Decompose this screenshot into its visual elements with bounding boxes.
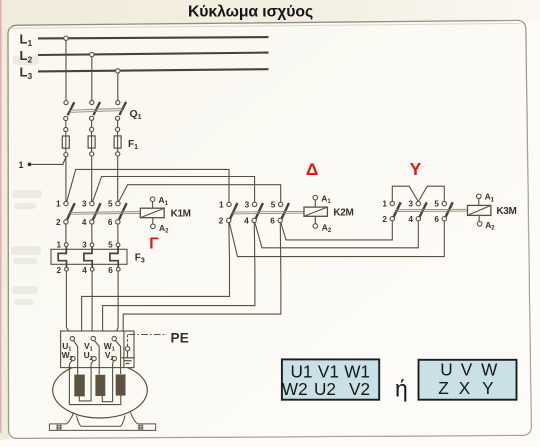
switch Q1 pole 2	[90, 100, 101, 120]
pin labels 5 6 of K1M	[108, 200, 113, 227]
svg-text:V: V	[461, 359, 473, 379]
switch Q1 pole 1	[64, 101, 75, 121]
node 1 dot	[28, 163, 32, 167]
wire F3-6 to motor W1	[114, 271, 118, 336]
svg-text:6: 6	[108, 266, 113, 275]
svg-text:1: 1	[219, 201, 224, 210]
wire K2M-4 to K3M-4	[255, 221, 418, 248]
pin label A1 of K2M	[321, 194, 331, 206]
node tap L1	[64, 36, 68, 40]
contactor K2M pole 1	[227, 202, 238, 222]
label ή (or)	[395, 375, 408, 401]
terminal U2	[79, 356, 96, 401]
terminal designation box left	[282, 359, 379, 399]
motor winding 2	[95, 375, 105, 396]
title Κύκλωμα ισχύος	[188, 3, 313, 20]
fuse F1 pole 3	[114, 127, 121, 156]
PE terminal	[125, 335, 129, 358]
pin labels 1 2 of K1M	[56, 200, 61, 227]
svg-text:X: X	[459, 378, 471, 398]
ground symbol	[122, 358, 134, 364]
motor M1 body ellipse	[53, 362, 148, 418]
pin labels 5 6 of K3M	[434, 200, 439, 224]
label U1	[62, 341, 71, 353]
svg-text:K1M: K1M	[171, 209, 191, 220]
pin label A2 of K2M	[322, 222, 332, 234]
pin labels 1 2 of F3	[56, 241, 61, 275]
contactor K2M pole 3	[278, 202, 289, 222]
coil K1M	[140, 197, 164, 229]
svg-text:1: 1	[19, 160, 24, 170]
overload F3 element 2	[84, 243, 94, 271]
wire K2M-6 down to motor V2	[115, 223, 281, 359]
svg-text:6: 6	[434, 215, 439, 224]
label L3	[20, 65, 33, 82]
label K3M	[496, 206, 516, 217]
svg-text:1: 1	[56, 241, 61, 250]
svg-text:4: 4	[82, 266, 87, 275]
pin labels 3 4 of K2M	[244, 201, 249, 226]
wire F3-2 to motor U1	[66, 271, 72, 336]
K2M mechanical link	[233, 211, 305, 214]
svg-text:Κύκλωμα ισχύος: Κύκλωμα ισχύος	[188, 3, 313, 20]
svg-text:5: 5	[434, 200, 439, 209]
svg-text:K3M: K3M	[496, 206, 516, 217]
switch Q1 pole 3	[116, 100, 127, 120]
wire F1 to K1M pole3	[117, 156, 119, 201]
wire K1M-2 to F3-1	[65, 224, 67, 243]
wire K1M-4 to F3-3	[91, 224, 93, 243]
svg-text:2: 2	[56, 218, 61, 227]
contactor K2M pole 2	[252, 202, 263, 222]
red letter Γ	[149, 236, 159, 253]
contactor K3M pole 3	[442, 201, 453, 220]
svg-text:3: 3	[245, 201, 250, 210]
label V1	[84, 341, 93, 353]
svg-text:ή: ή	[395, 375, 408, 401]
labels U V W row	[440, 359, 498, 379]
label L2	[20, 48, 33, 64]
label Q1	[130, 108, 142, 121]
terminal W1	[112, 336, 121, 374]
node tap L3	[116, 69, 120, 73]
pin labels 3 4 of F3	[82, 241, 87, 275]
svg-text:U: U	[440, 359, 452, 379]
svg-text:4: 4	[408, 215, 413, 224]
wire F1 to K1M pole1	[65, 157, 67, 202]
terminal U1	[70, 336, 77, 374]
red letter Y	[410, 159, 422, 179]
label node 1	[19, 160, 24, 170]
Q1 mechanical link	[70, 109, 123, 113]
terminal W2	[69, 356, 120, 404]
K1M mechanical link	[70, 212, 140, 215]
coil K3M	[468, 194, 491, 226]
label W1	[104, 341, 115, 353]
motor base with feet	[49, 412, 155, 430]
wire branch K1M-3 to K2M-3 rail	[92, 177, 254, 203]
node tap L2	[90, 52, 94, 56]
svg-text:V2: V2	[349, 379, 370, 399]
contactor K3M pole 1	[390, 201, 401, 220]
svg-text:6: 6	[108, 218, 113, 227]
wire K2M-2 down to motor W2	[74, 223, 230, 358]
pin label A2 of K3M	[485, 220, 495, 232]
terminal V1	[91, 336, 99, 374]
svg-text:Y: Y	[482, 378, 494, 398]
svg-text:4: 4	[82, 218, 87, 227]
contactor K1M pole 2	[90, 201, 101, 224]
pin label A2 of K1M	[159, 223, 169, 235]
wire L1	[38, 37, 269, 38]
svg-text:K2M: K2M	[333, 208, 353, 219]
label K2M	[333, 208, 353, 219]
red letter Δ	[306, 160, 318, 179]
label U2	[84, 350, 93, 362]
contactor K3M pole 2	[416, 201, 427, 220]
label K1M	[171, 209, 191, 220]
svg-text:3: 3	[82, 200, 87, 209]
coil K2M	[304, 195, 327, 228]
svg-text:Γ: Γ	[149, 236, 159, 253]
label F3	[135, 252, 145, 264]
terminal V2	[102, 356, 116, 401]
wire branch K1M-1 to K2M-1 rail	[67, 169, 229, 202]
svg-text:2: 2	[219, 217, 224, 226]
svg-text:PE: PE	[171, 330, 190, 345]
pin labels 5 6 of K2M	[270, 201, 276, 226]
svg-text:5: 5	[271, 201, 276, 210]
motor winding 3	[116, 374, 126, 395]
K3M mechanical link	[396, 209, 468, 211]
wire K2M-4 down to motor U2	[95, 223, 255, 358]
svg-text:2: 2	[382, 215, 387, 224]
terminal designation box right	[419, 360, 517, 400]
wire L2	[38, 53, 269, 55]
PE dash-dot wire	[129, 334, 168, 336]
svg-text:3: 3	[408, 200, 413, 209]
wire Q1 to F1 pole3	[117, 120, 119, 127]
fuse F1 pole 2	[88, 127, 95, 156]
wire L1 tap to Q1	[65, 41, 67, 101]
labels W2 U2 V2 row	[282, 379, 370, 399]
svg-text:W2: W2	[282, 379, 308, 399]
motor winding 1	[74, 375, 85, 397]
overload F3 element 1	[58, 243, 68, 271]
svg-text:2: 2	[57, 266, 62, 275]
pin labels 5 6 of F3	[108, 241, 113, 275]
wire Q1 to F1 pole1	[65, 121, 67, 128]
wire Q1 to F1 pole2	[91, 120, 93, 127]
wire K1M-6 to F3-5	[117, 224, 119, 243]
labels Z X Y row	[438, 378, 494, 398]
svg-text:Y: Y	[410, 159, 422, 179]
svg-text:4: 4	[244, 217, 249, 226]
labels U1 V1 W1 row	[291, 361, 370, 381]
motor terminal box	[61, 331, 134, 368]
label V2	[105, 350, 114, 362]
wire F3-4 to motor V1	[92, 271, 93, 336]
pin label A1 of K1M	[159, 195, 169, 207]
pin labels 3 4 of K1M	[82, 200, 87, 227]
pin label A1 of K3M	[485, 192, 495, 204]
contactor K1M pole 1	[64, 201, 75, 224]
svg-text:Δ: Δ	[306, 160, 318, 179]
label PE	[171, 330, 190, 345]
overload F3 element 3	[110, 243, 120, 271]
svg-text:5: 5	[108, 241, 113, 250]
label W2	[62, 350, 73, 362]
star bridge of K3M pins 1 3 5	[392, 186, 444, 201]
label L1	[20, 32, 33, 49]
svg-text:6: 6	[270, 217, 275, 226]
wire K2M-2 to K3M-6	[229, 221, 444, 257]
pin labels 1 2 of K3M	[382, 200, 387, 224]
wire F1 to K1M pole2	[91, 156, 93, 201]
label F1	[128, 139, 138, 151]
svg-text:U2: U2	[314, 379, 336, 399]
svg-text:Z: Z	[438, 378, 449, 398]
overload relay F3 box	[51, 249, 127, 264]
wire branch K1M-5 to K2M-5 rail	[118, 185, 280, 203]
wire L3	[38, 69, 269, 71]
svg-text:1: 1	[56, 200, 61, 209]
wire K2M-6 to K3M-2	[281, 221, 393, 240]
fuse F1 pole 1	[62, 127, 69, 156]
wire node 1 to phase 1	[31, 157, 66, 164]
wire L2 tap to Q1	[91, 57, 93, 101]
wire L3 tap to Q1	[117, 73, 119, 100]
contactor K1M pole 3	[116, 201, 127, 224]
pin labels 3 4 of K3M	[408, 200, 413, 224]
svg-text:5: 5	[108, 200, 113, 209]
pin labels 1 2 of K2M	[219, 201, 224, 226]
svg-text:1: 1	[382, 200, 387, 209]
svg-text:3: 3	[82, 241, 87, 250]
svg-text:W: W	[481, 359, 498, 379]
